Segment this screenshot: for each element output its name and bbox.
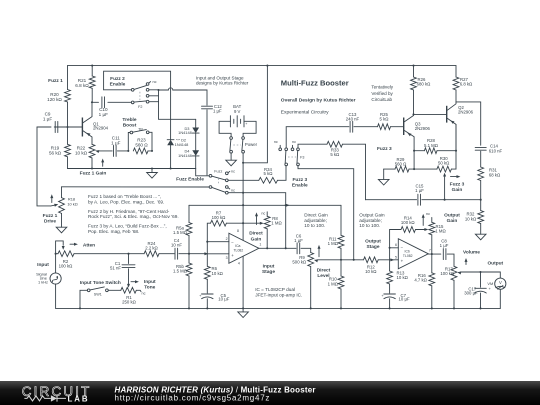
svg-text:IC = TL082CP dual: IC = TL082CP dual xyxy=(255,287,295,292)
resistor R19 xyxy=(65,144,71,157)
resistor R23 xyxy=(133,148,148,154)
ground fuzz1 xyxy=(151,169,153,173)
wire VM bottom xyxy=(499,289,501,308)
junction xyxy=(353,259,355,261)
wire input to R2 xyxy=(56,241,64,273)
svg-text:1: 1 xyxy=(259,243,261,247)
junction xyxy=(413,150,415,152)
svg-text:Fuzz 1: Fuzz 1 xyxy=(43,213,58,219)
svg-text:Fuzz 3 by A. Leo, “Build Fuzz-: Fuzz 3 by A. Leo, “Build Fuzz-Box ...”, xyxy=(88,224,167,229)
svg-text:Fuzz 2 by H. Friedman, “97-Cen: Fuzz 2 by H. Friedman, “97-Cent Hard- xyxy=(88,209,170,214)
svg-text:adjustable;: adjustable; xyxy=(359,218,382,223)
svg-text:−: − xyxy=(231,240,234,245)
junction xyxy=(170,167,172,169)
svg-text:10 kΩ: 10 kΩ xyxy=(67,201,77,206)
junction xyxy=(340,307,342,309)
switch SW1 input tone xyxy=(108,289,121,291)
svg-text:Tone: Tone xyxy=(144,284,155,290)
switch TB treble boost xyxy=(128,133,130,151)
wire ICa pin2 xyxy=(207,241,229,243)
svg-text:TL082: TL082 xyxy=(403,254,413,258)
switch F3 xyxy=(279,148,282,151)
junction xyxy=(242,204,244,206)
svg-text:2: 2 xyxy=(226,237,228,241)
svg-text:Fuzz 1: Fuzz 1 xyxy=(48,78,63,84)
svg-text:4: 4 xyxy=(238,262,240,266)
svg-text:Stage: Stage xyxy=(366,244,379,250)
diode D4 1N4148 xyxy=(195,134,197,151)
junction xyxy=(242,192,244,194)
junction xyxy=(188,253,190,255)
junction xyxy=(79,307,81,309)
resistor R27 xyxy=(453,77,459,90)
wire ICa pin4 xyxy=(242,256,244,308)
svg-text:2.2 kΩ: 2.2 kΩ xyxy=(145,246,158,251)
potentiometer R8 direct gain xyxy=(264,216,270,229)
svg-text:500 kΩ: 500 kΩ xyxy=(292,259,307,264)
resistor R14 xyxy=(390,230,401,248)
svg-text:Level: Level xyxy=(317,273,329,279)
svg-text:Fuzz 1 based on “Treble Boost: Fuzz 1 based on “Treble Boost ... ”, xyxy=(88,194,161,199)
svg-text:1 µF: 1 µF xyxy=(213,108,222,113)
svg-text:Rock Fuzz”, Sci. & Elec. mag.,: Rock Fuzz”, Sci. & Elec. mag., Oct-Nov ’… xyxy=(88,214,179,219)
svg-text:5: 5 xyxy=(395,255,397,259)
junction xyxy=(266,247,268,249)
wire fuzz1 bottom rail xyxy=(68,168,196,170)
svg-text:Stage: Stage xyxy=(262,269,275,275)
switch F2 xyxy=(131,88,134,91)
capacitor C11 xyxy=(114,145,117,156)
wire Q2 collector to C14 xyxy=(456,102,481,145)
svg-text:+: + xyxy=(245,122,247,126)
svg-text:Fuzz 3: Fuzz 3 xyxy=(377,146,392,152)
svg-text:Atten: Atten xyxy=(83,242,95,248)
junction xyxy=(412,113,414,115)
svg-text:5.1 MΩ: 5.1 MΩ xyxy=(424,143,439,148)
source V1 input signal xyxy=(50,273,61,284)
wire F3 direct out xyxy=(298,166,354,260)
svg-text:51 nF: 51 nF xyxy=(110,265,121,270)
wire ICb output xyxy=(428,253,441,255)
transistor Q2 2N2906 xyxy=(446,106,448,123)
svg-text:Input: Input xyxy=(144,279,156,285)
svg-text:56 kΩ: 56 kΩ xyxy=(49,151,62,156)
svg-text:designs by Kurtus Richter: designs by Kurtus Richter xyxy=(196,81,249,86)
annotation arrow direct gain xyxy=(256,215,258,224)
resistor R5a xyxy=(188,205,190,222)
svg-text:V: V xyxy=(499,280,502,285)
svg-text:1.5 MΩ: 1.5 MΩ xyxy=(173,269,188,274)
capacitor C15 xyxy=(366,199,417,201)
svg-text:10 kΩ: 10 kΩ xyxy=(75,151,88,156)
svg-text:Boost: Boost xyxy=(123,122,137,128)
ground power xyxy=(230,153,232,160)
svg-text:CircuitLab: CircuitLab xyxy=(371,97,392,102)
annotation arrow Input Tone xyxy=(131,281,137,283)
svg-text:4.7 kΩ: 4.7 kΩ xyxy=(414,278,427,283)
logo resistor squiggle xyxy=(24,396,51,401)
svg-text:Fuzz 3: Fuzz 3 xyxy=(292,177,307,183)
annotation arrow output gain xyxy=(422,217,424,226)
junction xyxy=(242,307,244,309)
wire ICa output xyxy=(259,247,296,249)
junction xyxy=(127,150,129,152)
wire fuzz3 signal in xyxy=(286,127,349,148)
wire ICb pin6 xyxy=(390,247,399,249)
svg-text:6: 6 xyxy=(395,243,397,247)
svg-text:+: + xyxy=(231,253,234,258)
svg-text:JFET-input op-amp IC.: JFET-input op-amp IC. xyxy=(255,292,302,297)
svg-text:10 kΩ: 10 kΩ xyxy=(397,275,409,280)
svg-text:1 µF: 1 µF xyxy=(111,141,120,146)
svg-text:Treble: Treble xyxy=(122,117,136,123)
potentiometer R18 xyxy=(61,187,63,198)
wire R2 to R24 xyxy=(74,253,144,255)
junction xyxy=(480,199,482,201)
op-amp ICa TL082 xyxy=(229,233,259,263)
wire bottom ground rail xyxy=(56,307,501,309)
resistor R24 xyxy=(144,251,159,257)
svg-text:Enable: Enable xyxy=(110,81,126,87)
junction xyxy=(91,101,93,103)
resistor R10 xyxy=(338,276,344,289)
svg-text:Tentatively: Tentatively xyxy=(371,85,393,90)
junction xyxy=(66,126,68,128)
junction xyxy=(479,307,481,309)
svg-text:120 kΩ: 120 kΩ xyxy=(47,97,62,102)
resistor R31 xyxy=(478,167,484,181)
svg-text:Output: Output xyxy=(487,261,503,267)
junction xyxy=(479,271,481,273)
svg-text:1 MΩ: 1 MΩ xyxy=(328,241,339,246)
svg-text:680 kΩ: 680 kΩ xyxy=(417,82,432,87)
potentiometer R17 volume xyxy=(451,266,457,280)
wire top +9V rail xyxy=(68,65,457,67)
annotation arrow direct level xyxy=(318,248,320,257)
svg-text:Volume: Volume xyxy=(463,250,480,256)
junction xyxy=(389,247,391,249)
wire diode branch top xyxy=(159,102,196,120)
wire ICa pin3 xyxy=(205,253,229,255)
ground R29 xyxy=(383,169,385,179)
svg-text:1N4148: 1N4148 xyxy=(178,153,192,158)
potentiometer R22 xyxy=(89,144,95,158)
svg-text:10 µF: 10 µF xyxy=(218,296,229,301)
annotation arrow Fuzz 3 Gain xyxy=(451,176,459,178)
svg-text:nc: nc xyxy=(153,80,157,84)
annotation arrow Fuzz 1 Drive xyxy=(51,197,53,202)
capacitor C1 xyxy=(128,254,130,264)
voltmeter VM xyxy=(495,278,506,289)
svg-text:1 MΩ: 1 MΩ xyxy=(328,281,339,286)
capacitor C7 xyxy=(389,284,391,293)
svg-text:10 kΩ: 10 kΩ xyxy=(212,271,224,276)
svg-text:Gain: Gain xyxy=(251,236,262,242)
junction xyxy=(91,167,93,169)
junction xyxy=(242,162,244,164)
junction xyxy=(444,199,446,201)
switch Fuzz Enable pole1 xyxy=(196,169,209,176)
wire Q3 collector to Q2 base xyxy=(414,113,447,115)
wire battery to +9V rail xyxy=(242,153,244,163)
junction xyxy=(242,222,244,224)
svg-text:+: + xyxy=(401,258,404,263)
resistor R28 xyxy=(414,150,424,152)
svg-text:Pop. Elec. mag, Feb ’68.: Pop. Elec. mag, Feb ’68. xyxy=(88,229,139,234)
svg-text:100 kΩ: 100 kΩ xyxy=(440,271,455,276)
svg-text:nc: nc xyxy=(142,292,146,296)
node Fuzz 2 Enable loop xyxy=(104,71,171,90)
svg-text:Input Tone Switch: Input Tone Switch xyxy=(80,280,121,286)
svg-text:560 Ω: 560 Ω xyxy=(395,161,407,166)
svg-text:http://circuitlab.com/c9vsg5a2: http://circuitlab.com/c9vsg5a2mg47z xyxy=(115,394,271,403)
ground R32 xyxy=(480,224,482,235)
svg-text:10 kΩ: 10 kΩ xyxy=(365,269,377,274)
svg-text:Direct Gain: Direct Gain xyxy=(304,213,328,218)
svg-text:nc: nc xyxy=(292,140,296,144)
svg-text:TL082: TL082 xyxy=(233,249,243,253)
svg-text:ICa: ICa xyxy=(235,244,240,248)
svg-text:Direct: Direct xyxy=(317,267,331,273)
resistor R6 xyxy=(206,242,208,267)
resistor R16 xyxy=(431,254,433,273)
svg-text:250 kΩ: 250 kΩ xyxy=(122,300,137,305)
svg-text:Output: Output xyxy=(365,238,381,244)
junction xyxy=(206,307,208,309)
wire C9 to R18 wiper xyxy=(37,127,51,206)
wire R30 wiper to C15 xyxy=(444,176,446,200)
annotation arrow volume xyxy=(465,261,467,265)
svg-text:Fuzz 2: Fuzz 2 xyxy=(110,76,125,82)
svg-text:1N4148: 1N4148 xyxy=(178,130,192,135)
svg-text:5 kΩ: 5 kΩ xyxy=(380,117,390,122)
resistor R26 xyxy=(413,66,415,77)
svg-text:SW1: SW1 xyxy=(94,292,102,296)
svg-text:Experimental Circuitry: Experimental Circuitry xyxy=(281,110,329,116)
wire R15 to output node xyxy=(431,235,433,254)
transistor Q1 xyxy=(81,118,83,137)
svg-text:Input: Input xyxy=(37,262,49,268)
wire Q3 emitter to R29 xyxy=(413,151,415,169)
potentiometer R2 Atten xyxy=(58,251,74,257)
svg-text:Drive: Drive xyxy=(44,219,56,225)
svg-text:nc: nc xyxy=(231,169,235,173)
junction xyxy=(413,168,415,170)
svg-text:6.8 kΩ: 6.8 kΩ xyxy=(460,82,473,87)
svg-text:300 µF: 300 µF xyxy=(464,291,478,296)
svg-text:10 to 100.: 10 to 100. xyxy=(304,223,325,228)
junction xyxy=(157,89,159,91)
svg-text:1 kHz: 1 kHz xyxy=(38,279,48,284)
svg-text:Direct: Direct xyxy=(249,231,263,237)
svg-text:10 to 100.: 10 to 100. xyxy=(359,223,380,228)
resistor R29 xyxy=(384,168,395,170)
potentiometer R1 xyxy=(121,287,137,293)
svg-text:Input and Output Stage: Input and Output Stage xyxy=(196,75,244,80)
svg-text:8: 8 xyxy=(237,229,239,233)
diode D2 line xyxy=(170,90,172,140)
ground R18 xyxy=(61,213,63,227)
svg-text:9 V: 9 V xyxy=(234,109,241,114)
junction xyxy=(340,259,342,261)
svg-text:2N2906: 2N2906 xyxy=(458,110,474,115)
svg-text:100 kΩ: 100 kΩ xyxy=(59,264,74,269)
resistor R33 xyxy=(327,141,343,147)
svg-text:100 kΩ: 100 kΩ xyxy=(212,215,227,220)
svg-text:ICb: ICb xyxy=(405,250,410,254)
svg-text:Output: Output xyxy=(444,213,460,219)
svg-text:Multi-Fuzz Booster: Multi-Fuzz Booster xyxy=(281,78,349,87)
svg-text:nc: nc xyxy=(261,211,265,215)
resistor R13 xyxy=(389,248,391,271)
svg-text:1N4148: 1N4148 xyxy=(175,142,189,147)
node base wire Q1 xyxy=(59,126,82,128)
annotation arrow Atten xyxy=(70,243,76,245)
junction xyxy=(151,167,153,169)
resistor R7 xyxy=(207,223,210,242)
svg-text:Gain: Gain xyxy=(452,187,463,193)
svg-text:2N2904: 2N2904 xyxy=(93,126,109,131)
svg-text:1 MΩ: 1 MΩ xyxy=(271,221,282,226)
svg-text:Fuzz 1 Gain: Fuzz 1 Gain xyxy=(80,170,107,176)
svg-text:10 nF: 10 nF xyxy=(171,242,182,247)
wire R8 to output node xyxy=(266,229,268,249)
junction xyxy=(266,65,268,67)
svg-text:10 kΩ: 10 kΩ xyxy=(465,216,477,221)
capacitor C8 xyxy=(443,249,446,260)
capacitor C13 xyxy=(350,121,353,132)
capacitor C17 xyxy=(480,272,482,287)
svg-text:1 MΩ: 1 MΩ xyxy=(435,229,446,234)
svg-text:10 µF: 10 µF xyxy=(399,296,410,301)
capacitor C10 xyxy=(92,101,99,103)
svg-text:Enable: Enable xyxy=(292,183,308,189)
svg-text:nc: nc xyxy=(274,140,278,144)
junction xyxy=(285,204,287,206)
svg-text:LAB: LAB xyxy=(68,395,90,404)
ground ICa xyxy=(242,308,244,312)
logo diode xyxy=(51,395,57,401)
junction xyxy=(188,307,190,309)
switch Fuzz Enable pole2 xyxy=(209,186,212,189)
resistor R21 xyxy=(91,66,93,76)
capacitor C4 xyxy=(175,248,178,259)
svg-text:5 kΩ: 5 kΩ xyxy=(264,171,274,176)
junction xyxy=(389,307,391,309)
potentiometer R9 direct level xyxy=(308,253,314,267)
svg-text:240 nF: 240 nF xyxy=(346,117,360,122)
resistor R5b xyxy=(188,254,190,263)
svg-text:Fuzz: Fuzz xyxy=(214,169,222,173)
resistor R34 xyxy=(228,179,259,181)
resistor R11 xyxy=(340,205,342,235)
wire V+ supply down to ICa pin8 xyxy=(242,163,244,223)
svg-text:Fuzz Enable: Fuzz Enable xyxy=(176,177,204,183)
wire direct path from fuzz enable xyxy=(228,193,286,249)
junction xyxy=(151,150,153,152)
capacitor C14 xyxy=(475,148,486,151)
svg-text:Fuzz 3: Fuzz 3 xyxy=(450,181,465,187)
wire F3 to R33 xyxy=(298,144,327,148)
svg-text:nc: nc xyxy=(231,189,235,193)
wire direct gain top xyxy=(189,204,341,206)
capacitor C5 xyxy=(206,279,208,293)
svg-text:Input: Input xyxy=(263,264,275,270)
annotation arrow Fuzz 1 Gain xyxy=(102,162,104,167)
svg-text:610 nF: 610 nF xyxy=(489,149,503,154)
svg-text:Power: Power xyxy=(245,142,258,147)
svg-text:by A. Leo, Pop. Elec. mag., De: by A. Leo, Pop. Elec. mag., Dec. ’69. xyxy=(88,199,164,204)
wire F2 to C12 with hop xyxy=(159,88,208,105)
svg-text:Overall Design by Kutus Richte: Overall Design by Kutus Richter xyxy=(281,98,356,104)
wire input bottom xyxy=(55,284,57,308)
transistor Q3 2N2906 xyxy=(403,118,405,136)
svg-text:100 kΩ: 100 kΩ xyxy=(401,220,416,225)
wire R17 wiper to output xyxy=(460,272,500,278)
svg-text:1 µF: 1 µF xyxy=(440,243,449,248)
svg-text:68 kΩ: 68 kΩ xyxy=(489,173,501,178)
junction xyxy=(310,307,312,309)
op-amp ICb TL082 xyxy=(398,239,428,269)
diode D2 1N4148 xyxy=(167,140,174,146)
capacitor C9 xyxy=(54,126,59,128)
junction xyxy=(127,253,129,255)
resistor R20 xyxy=(67,66,69,90)
capacitor C12 xyxy=(202,106,213,109)
svg-text:VM: VM xyxy=(487,281,493,286)
svg-text:3: 3 xyxy=(226,256,228,260)
svg-text:−: − xyxy=(400,245,403,250)
svg-text:Verified by: Verified by xyxy=(371,91,393,96)
svg-text:7: 7 xyxy=(429,248,431,252)
resistor R25 xyxy=(378,124,391,130)
svg-text:nc: nc xyxy=(426,212,430,216)
svg-text:TB: TB xyxy=(138,128,143,132)
wire R18 to fuzz enable xyxy=(62,186,210,188)
svg-text:F2: F2 xyxy=(138,105,142,109)
svg-text:1 µF: 1 µF xyxy=(415,188,424,193)
wire SW1 to ground rail xyxy=(80,290,87,308)
svg-text:Gain: Gain xyxy=(447,218,458,224)
junction xyxy=(431,253,433,255)
svg-text:+: + xyxy=(489,286,492,291)
junction xyxy=(285,247,287,249)
svg-text:2N2906: 2N2906 xyxy=(415,126,431,131)
capacitor C6 xyxy=(297,243,300,254)
svg-text:1.5 MΩ: 1.5 MΩ xyxy=(173,230,188,235)
svg-text:6.8 kΩ: 6.8 kΩ xyxy=(75,83,89,88)
junction xyxy=(455,150,457,152)
junction xyxy=(55,253,57,255)
svg-text:5 kΩ: 5 kΩ xyxy=(330,152,340,157)
switch Power xyxy=(230,137,233,140)
resistor R12 xyxy=(341,259,364,261)
potentiometer R30 xyxy=(414,168,437,170)
svg-text:F3: F3 xyxy=(300,155,304,159)
junction xyxy=(453,307,455,309)
svg-text:1 µF: 1 µF xyxy=(99,112,108,117)
potentiometer R15 output gain xyxy=(429,222,435,235)
svg-text:1 µF: 1 µF xyxy=(43,116,52,121)
wire R9 wiper to bus xyxy=(317,259,341,261)
svg-text:1 µF: 1 µF xyxy=(294,238,303,243)
svg-text:560 Ω: 560 Ω xyxy=(135,143,148,148)
junction xyxy=(412,65,414,67)
junction xyxy=(91,65,93,67)
svg-text:adjustable;: adjustable; xyxy=(304,218,327,223)
diode D3 1N4148 xyxy=(195,119,197,127)
junction xyxy=(206,241,208,243)
